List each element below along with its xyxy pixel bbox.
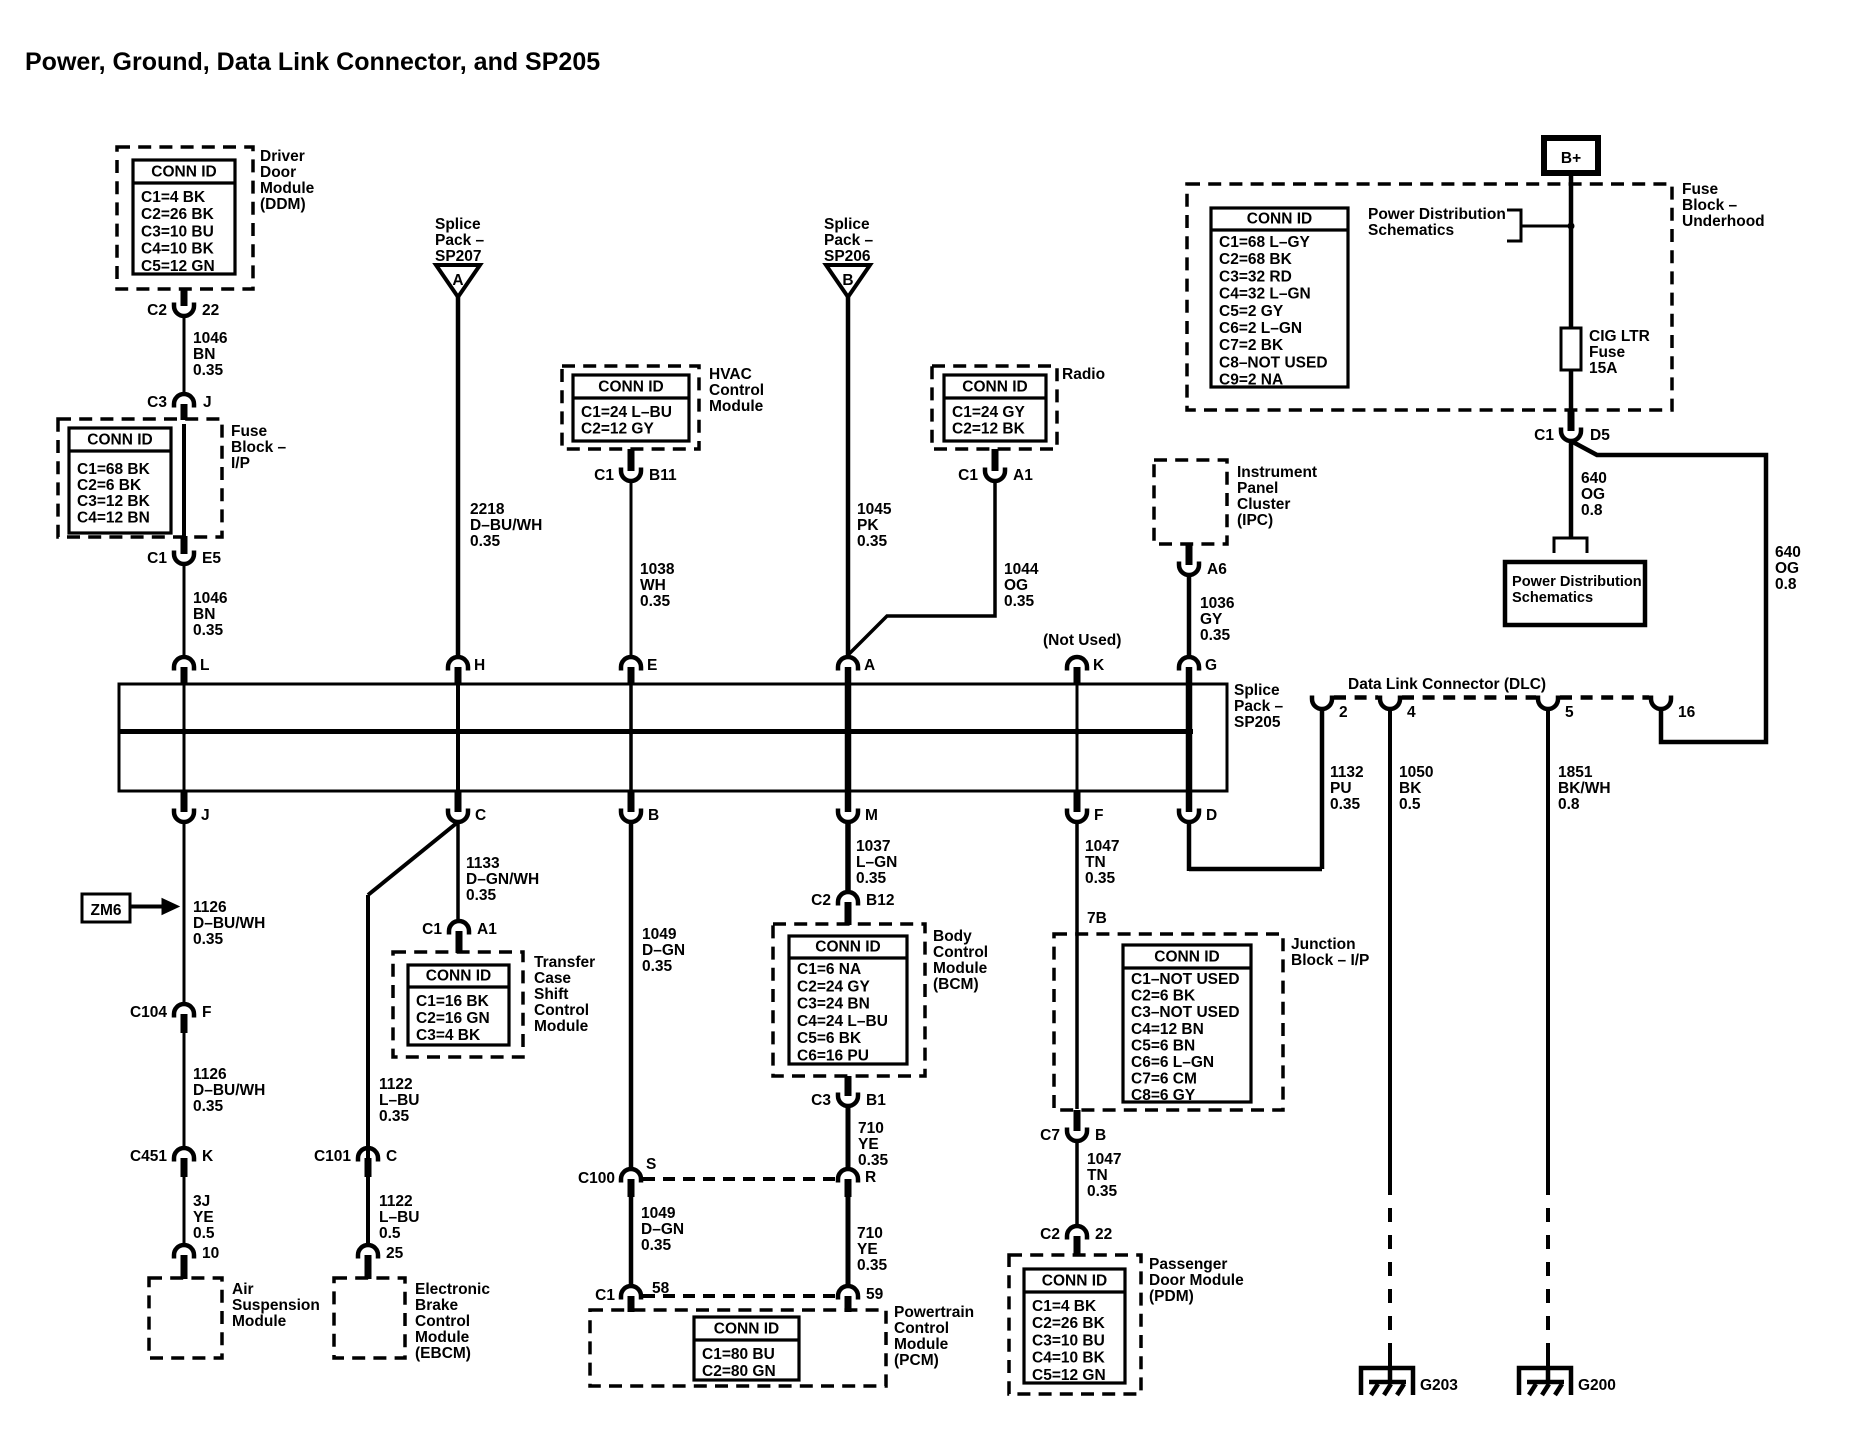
svg-text:C6=2 L–GN: C6=2 L–GN — [1219, 320, 1302, 337]
svg-text:Splice: Splice — [1234, 682, 1280, 699]
svg-text:Module: Module — [933, 960, 988, 977]
svg-text:640: 640 — [1775, 544, 1801, 561]
svg-text:C2: C2 — [147, 302, 167, 319]
svg-text:Transfer: Transfer — [534, 954, 595, 971]
svg-text:1036: 1036 — [1200, 595, 1235, 612]
svg-text:C4=12 BN: C4=12 BN — [1131, 1021, 1204, 1038]
svg-text:C3=10 BU: C3=10 BU — [1032, 1332, 1105, 1349]
svg-text:Splice: Splice — [824, 216, 870, 233]
svg-text:C451: C451 — [130, 1148, 167, 1165]
svg-text:0.35: 0.35 — [1085, 870, 1116, 887]
svg-text:B: B — [648, 807, 659, 824]
svg-text:0.35: 0.35 — [1200, 627, 1231, 644]
svg-text:Fuse: Fuse — [231, 423, 268, 440]
svg-text:10: 10 — [202, 1245, 219, 1262]
svg-text:C100: C100 — [578, 1170, 615, 1187]
svg-text:(PCM): (PCM) — [894, 1352, 939, 1369]
svg-text:L–BU: L–BU — [379, 1092, 419, 1109]
svg-text:Data Link Connector (DLC): Data Link Connector (DLC) — [1348, 676, 1546, 693]
svg-text:E: E — [647, 657, 657, 674]
svg-text:710: 710 — [857, 1225, 883, 1242]
svg-text:(EBCM): (EBCM) — [415, 1345, 471, 1362]
svg-text:Electronic: Electronic — [415, 1281, 490, 1298]
svg-text:G: G — [1205, 657, 1217, 674]
svg-text:(DDM): (DDM) — [260, 196, 306, 213]
svg-text:OG: OG — [1004, 577, 1028, 594]
svg-text:Pack –: Pack – — [435, 232, 485, 249]
svg-text:WH: WH — [640, 577, 666, 594]
svg-text:GY: GY — [1200, 611, 1223, 628]
svg-text:CONN ID: CONN ID — [598, 379, 663, 396]
svg-text:B: B — [842, 272, 853, 289]
svg-text:C7: C7 — [1040, 1127, 1060, 1144]
svg-text:(BCM): (BCM) — [933, 976, 979, 993]
svg-text:1050: 1050 — [1399, 764, 1433, 781]
svg-text:C6=16 PU: C6=16 PU — [797, 1048, 869, 1065]
svg-text:PU: PU — [1330, 780, 1352, 797]
svg-text:640: 640 — [1581, 470, 1607, 487]
svg-text:22: 22 — [1095, 1226, 1112, 1243]
svg-text:1038: 1038 — [640, 561, 675, 578]
svg-text:1132: 1132 — [1330, 764, 1364, 781]
svg-text:Air: Air — [232, 1281, 254, 1298]
svg-text:D: D — [1206, 807, 1217, 824]
svg-text:1049: 1049 — [641, 1205, 676, 1222]
svg-text:0.35: 0.35 — [1087, 1183, 1118, 1200]
svg-text:0.35: 0.35 — [193, 931, 224, 948]
svg-text:YE: YE — [193, 1209, 214, 1226]
svg-text:Splice: Splice — [435, 216, 481, 233]
svg-text:D–GN: D–GN — [641, 1221, 684, 1238]
svg-text:CIG LTR: CIG LTR — [1589, 328, 1650, 345]
svg-text:0.35: 0.35 — [379, 1108, 410, 1125]
svg-text:Module: Module — [534, 1018, 589, 1035]
svg-text:D–BU/WH: D–BU/WH — [470, 517, 542, 534]
svg-text:Junction: Junction — [1291, 936, 1356, 953]
svg-text:C1–NOT USED: C1–NOT USED — [1131, 971, 1240, 988]
svg-text:Control: Control — [709, 382, 764, 399]
svg-text:C1: C1 — [422, 921, 442, 938]
svg-text:C7=6 CM: C7=6 CM — [1131, 1071, 1197, 1088]
svg-text:1851: 1851 — [1558, 764, 1593, 781]
svg-text:Instrument: Instrument — [1237, 464, 1317, 481]
svg-text:D–BU/WH: D–BU/WH — [193, 915, 265, 932]
svg-text:1046: 1046 — [193, 590, 228, 607]
svg-text:C1: C1 — [958, 467, 978, 484]
svg-text:C4=32 L–GN: C4=32 L–GN — [1219, 286, 1311, 303]
svg-text:BN: BN — [193, 606, 215, 623]
svg-text:D–BU/WH: D–BU/WH — [193, 1082, 265, 1099]
svg-text:L–BU: L–BU — [379, 1209, 419, 1226]
svg-text:C8=6 GY: C8=6 GY — [1131, 1087, 1196, 1104]
svg-text:4: 4 — [1407, 704, 1416, 721]
svg-text:CONN ID: CONN ID — [87, 432, 152, 449]
svg-text:TN: TN — [1085, 854, 1106, 871]
svg-text:C5=2 GY: C5=2 GY — [1219, 303, 1284, 320]
svg-text:Powertrain: Powertrain — [894, 1304, 974, 1321]
svg-text:16: 16 — [1678, 704, 1696, 721]
svg-text:CONN ID: CONN ID — [151, 164, 216, 181]
svg-text:G200: G200 — [1578, 1377, 1616, 1394]
svg-text:1126: 1126 — [193, 1066, 227, 1083]
svg-text:0.35: 0.35 — [856, 870, 887, 887]
svg-text:C104: C104 — [130, 1004, 167, 1021]
svg-text:C3=12 BK: C3=12 BK — [77, 493, 151, 510]
svg-text:5: 5 — [1565, 704, 1574, 721]
svg-text:C5=12 GN: C5=12 GN — [141, 258, 215, 275]
svg-text:0.35: 0.35 — [193, 622, 224, 639]
svg-text:1045: 1045 — [857, 501, 892, 518]
svg-text:Body: Body — [933, 928, 972, 945]
svg-text:C: C — [386, 1148, 397, 1165]
svg-text:C3=4 BK: C3=4 BK — [416, 1027, 481, 1044]
svg-text:C5=12 GN: C5=12 GN — [1032, 1367, 1106, 1384]
svg-text:C1=24 L–BU: C1=24 L–BU — [581, 404, 672, 421]
svg-text:22: 22 — [202, 302, 219, 319]
svg-text:C3=10 BU: C3=10 BU — [141, 223, 214, 240]
svg-text:C9=2 NA: C9=2 NA — [1219, 372, 1283, 389]
svg-text:OG: OG — [1775, 560, 1799, 577]
svg-text:Module: Module — [415, 1329, 470, 1346]
svg-text:SP206: SP206 — [824, 248, 871, 265]
svg-text:C4=24 L–BU: C4=24 L–BU — [797, 1013, 888, 1030]
svg-text:59: 59 — [866, 1286, 884, 1303]
svg-text:C3=32 RD: C3=32 RD — [1219, 268, 1292, 285]
svg-text:BK: BK — [1399, 780, 1422, 797]
svg-text:C1: C1 — [595, 1287, 615, 1304]
svg-text:0.35: 0.35 — [1330, 796, 1361, 813]
svg-text:0.35: 0.35 — [193, 362, 224, 379]
svg-text:PK: PK — [857, 517, 879, 534]
svg-text:Module: Module — [894, 1336, 949, 1353]
svg-text:0.8: 0.8 — [1558, 796, 1580, 813]
svg-text:A1: A1 — [477, 921, 497, 938]
svg-text:C1: C1 — [1534, 427, 1554, 444]
svg-text:Door Module: Door Module — [1149, 1272, 1244, 1289]
svg-text:C1=6 NA: C1=6 NA — [797, 961, 861, 978]
svg-text:Module: Module — [709, 398, 764, 415]
svg-text:YE: YE — [857, 1241, 878, 1258]
svg-text:C2=24 GY: C2=24 GY — [797, 978, 870, 995]
svg-text:Door: Door — [260, 164, 296, 181]
svg-text:A: A — [864, 657, 875, 674]
svg-text:A6: A6 — [1207, 561, 1227, 578]
svg-text:Case: Case — [534, 970, 571, 987]
svg-text:Module: Module — [232, 1313, 287, 1330]
svg-text:C8–NOT USED: C8–NOT USED — [1219, 354, 1328, 371]
svg-text:G203: G203 — [1420, 1377, 1458, 1394]
svg-text:0.35: 0.35 — [193, 1098, 224, 1115]
svg-text:0.35: 0.35 — [642, 958, 673, 975]
svg-text:A: A — [452, 272, 463, 289]
svg-text:HVAC: HVAC — [709, 366, 752, 383]
svg-text:Pack –: Pack – — [1234, 698, 1284, 715]
svg-text:Schematics: Schematics — [1368, 222, 1454, 239]
svg-text:C2=16 GN: C2=16 GN — [416, 1010, 490, 1027]
svg-text:1044: 1044 — [1004, 561, 1039, 578]
svg-text:0.8: 0.8 — [1581, 502, 1603, 519]
svg-text:C2=68 BK: C2=68 BK — [1219, 251, 1293, 268]
svg-text:C2=6 BK: C2=6 BK — [77, 477, 142, 494]
svg-text:0.35: 0.35 — [857, 533, 888, 550]
svg-text:Control: Control — [415, 1313, 470, 1330]
svg-text:0.5: 0.5 — [1399, 796, 1421, 813]
svg-text:2218: 2218 — [470, 501, 505, 518]
svg-text:C6=6 L–GN: C6=6 L–GN — [1131, 1054, 1214, 1071]
svg-text:S: S — [646, 1156, 656, 1173]
svg-text:YE: YE — [858, 1136, 879, 1153]
svg-text:C1: C1 — [594, 467, 614, 484]
svg-text:Fuse: Fuse — [1589, 344, 1626, 361]
svg-text:C2=80 GN: C2=80 GN — [702, 1363, 776, 1380]
svg-text:C5=6 BN: C5=6 BN — [1131, 1037, 1195, 1054]
svg-text:OG: OG — [1581, 486, 1605, 503]
svg-text:25: 25 — [386, 1245, 404, 1262]
svg-text:Power Distribution: Power Distribution — [1368, 206, 1506, 223]
svg-text:C3–NOT USED: C3–NOT USED — [1131, 1004, 1240, 1021]
svg-text:C2=12 BK: C2=12 BK — [952, 421, 1026, 438]
svg-text:BN: BN — [193, 346, 215, 363]
svg-text:C2: C2 — [811, 892, 831, 909]
svg-text:(Not Used): (Not Used) — [1043, 632, 1121, 649]
svg-text:Passenger: Passenger — [1149, 1256, 1227, 1273]
svg-text:C2=6 BK: C2=6 BK — [1131, 988, 1196, 1005]
svg-text:0.35: 0.35 — [857, 1257, 888, 1274]
svg-text:C2=26 BK: C2=26 BK — [141, 206, 215, 223]
svg-text:7B: 7B — [1087, 910, 1107, 927]
svg-text:0.8: 0.8 — [1775, 576, 1797, 593]
svg-text:CONN ID: CONN ID — [1154, 949, 1219, 966]
svg-text:15A: 15A — [1589, 360, 1617, 377]
svg-text:Radio: Radio — [1062, 366, 1105, 383]
svg-text:1126: 1126 — [193, 899, 227, 916]
svg-text:1047: 1047 — [1087, 1151, 1121, 1168]
svg-text:Pack –: Pack – — [824, 232, 874, 249]
svg-text:SP207: SP207 — [435, 248, 482, 265]
svg-text:C3: C3 — [147, 394, 167, 411]
svg-text:C1=16 BK: C1=16 BK — [416, 993, 490, 1010]
svg-text:Block – I/P: Block – I/P — [1291, 952, 1369, 969]
svg-text:F: F — [1094, 807, 1103, 824]
svg-text:F: F — [202, 1004, 211, 1021]
svg-text:D–GN/WH: D–GN/WH — [466, 871, 539, 888]
svg-text:C: C — [475, 807, 486, 824]
svg-text:Suspension: Suspension — [232, 1297, 320, 1314]
svg-text:0.35: 0.35 — [1004, 593, 1035, 610]
svg-text:C1=4 BK: C1=4 BK — [1032, 1298, 1097, 1315]
svg-text:1049: 1049 — [642, 926, 677, 943]
svg-text:Control: Control — [894, 1320, 949, 1337]
svg-text:C5=6 BK: C5=6 BK — [797, 1030, 862, 1047]
svg-text:C2=12 GY: C2=12 GY — [581, 421, 654, 438]
svg-text:C3: C3 — [811, 1092, 831, 1109]
svg-text:710: 710 — [858, 1120, 884, 1137]
svg-text:0.35: 0.35 — [641, 1237, 672, 1254]
svg-text:B12: B12 — [866, 892, 894, 909]
svg-text:2: 2 — [1339, 704, 1348, 721]
svg-text:Underhood: Underhood — [1682, 213, 1765, 230]
svg-text:H: H — [474, 657, 485, 674]
svg-text:SP205: SP205 — [1234, 714, 1281, 731]
svg-text:C3=24 BN: C3=24 BN — [797, 996, 870, 1013]
svg-text:0.5: 0.5 — [379, 1225, 401, 1242]
svg-text:C101: C101 — [314, 1148, 351, 1165]
svg-text:C7=2 BK: C7=2 BK — [1219, 337, 1284, 354]
svg-text:A1: A1 — [1013, 467, 1033, 484]
svg-text:(PDM): (PDM) — [1149, 1288, 1194, 1305]
svg-text:L–GN: L–GN — [856, 854, 897, 871]
svg-text:CONN ID: CONN ID — [815, 939, 880, 956]
svg-text:1122: 1122 — [379, 1076, 413, 1093]
svg-text:0.35: 0.35 — [470, 533, 501, 550]
svg-text:CONN ID: CONN ID — [1247, 211, 1312, 228]
svg-text:R: R — [865, 1169, 876, 1186]
svg-text:B11: B11 — [649, 467, 677, 484]
svg-text:Power Distribution: Power Distribution — [1512, 574, 1642, 590]
svg-text:C1=24 GY: C1=24 GY — [952, 404, 1025, 421]
svg-text:ZM6: ZM6 — [91, 902, 122, 919]
svg-text:Module: Module — [260, 180, 315, 197]
svg-text:0.35: 0.35 — [858, 1152, 889, 1169]
svg-text:Brake: Brake — [415, 1297, 458, 1314]
svg-text:E5: E5 — [202, 550, 221, 567]
svg-text:Power, Ground, Data Link Conne: Power, Ground, Data Link Connector, and … — [25, 48, 600, 76]
svg-text:J: J — [201, 807, 210, 824]
svg-text:Block –: Block – — [231, 439, 287, 456]
svg-text:C4=10 BK: C4=10 BK — [1032, 1350, 1106, 1367]
svg-text:CONN ID: CONN ID — [714, 1321, 779, 1338]
svg-text:CONN ID: CONN ID — [1042, 1273, 1107, 1290]
svg-text:3J: 3J — [193, 1193, 210, 1210]
svg-text:I/P: I/P — [231, 455, 250, 472]
svg-text:C2: C2 — [1040, 1226, 1060, 1243]
svg-text:M: M — [865, 807, 878, 824]
svg-text:Control: Control — [933, 944, 988, 961]
svg-text:Shift: Shift — [534, 986, 568, 1003]
svg-text:CONN ID: CONN ID — [962, 379, 1027, 396]
svg-text:D5: D5 — [1590, 427, 1610, 444]
svg-text:D–GN: D–GN — [642, 942, 685, 959]
svg-text:L: L — [200, 657, 209, 674]
svg-text:C1=4 BK: C1=4 BK — [141, 189, 206, 206]
svg-text:0.35: 0.35 — [466, 887, 497, 904]
svg-text:1037: 1037 — [856, 838, 890, 855]
svg-text:Control: Control — [534, 1002, 589, 1019]
svg-text:K: K — [1093, 657, 1105, 674]
svg-text:C4=10 BK: C4=10 BK — [141, 241, 215, 258]
svg-text:Driver: Driver — [260, 148, 305, 165]
svg-text:Cluster: Cluster — [1237, 496, 1290, 513]
svg-text:1133: 1133 — [466, 855, 500, 872]
svg-text:1122: 1122 — [379, 1193, 413, 1210]
svg-text:BK/WH: BK/WH — [1558, 780, 1611, 797]
svg-text:B1: B1 — [866, 1092, 886, 1109]
svg-text:C1: C1 — [147, 550, 167, 567]
svg-text:C1=68 L–GY: C1=68 L–GY — [1219, 234, 1311, 251]
svg-text:C2=26 BK: C2=26 BK — [1032, 1315, 1106, 1332]
svg-text:B+: B+ — [1561, 150, 1581, 167]
svg-text:C4=12 BN: C4=12 BN — [77, 509, 150, 526]
svg-text:0.35: 0.35 — [640, 593, 671, 610]
svg-text:C1=68 BK: C1=68 BK — [77, 461, 151, 478]
svg-text:K: K — [202, 1148, 214, 1165]
svg-text:(IPC): (IPC) — [1237, 512, 1273, 529]
svg-text:J: J — [203, 394, 212, 411]
svg-text:Fuse: Fuse — [1682, 181, 1719, 198]
svg-text:Schematics: Schematics — [1512, 590, 1593, 606]
svg-text:B: B — [1095, 1127, 1106, 1144]
svg-text:1047: 1047 — [1085, 838, 1119, 855]
svg-text:C1=80 BU: C1=80 BU — [702, 1346, 775, 1363]
svg-text:1046: 1046 — [193, 330, 228, 347]
svg-text:CONN ID: CONN ID — [426, 968, 491, 985]
svg-text:Panel: Panel — [1237, 480, 1278, 497]
svg-text:Block –: Block – — [1682, 197, 1738, 214]
svg-text:0.5: 0.5 — [193, 1225, 215, 1242]
svg-text:TN: TN — [1087, 1167, 1108, 1184]
